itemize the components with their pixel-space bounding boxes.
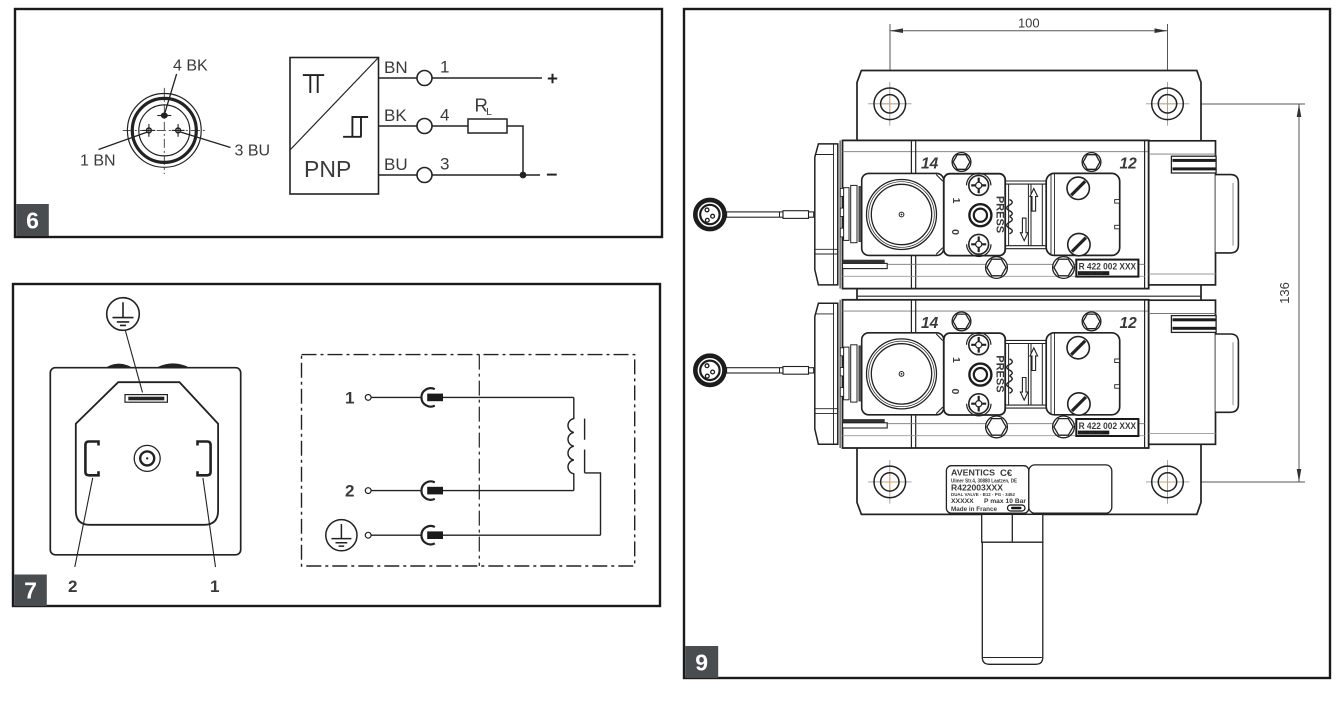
svg-text:C€: C€: [1000, 468, 1013, 479]
pin 3 (BU, right): [176, 128, 181, 133]
leader to pin 4: [165, 74, 177, 113]
pin 4 (BK, top): [161, 113, 168, 119]
base plate: [857, 71, 1201, 515]
outlet stem upper: [982, 514, 1043, 542]
svg-text:6: 6: [26, 208, 39, 234]
svg-text:3 BU: 3 BU: [235, 143, 271, 160]
connector inner chamfered body: [76, 382, 218, 525]
hysteresis symbol: [343, 117, 368, 137]
wire BN: [379, 77, 418, 79]
svg-text:Made in France: Made in France: [951, 506, 997, 513]
svg-text:2: 2: [68, 577, 77, 596]
plus terminal: [548, 74, 557, 83]
dimension 136: extension lines: [1176, 103, 1305, 105]
top slot: [125, 395, 167, 403]
contact symbol row 2: [421, 481, 434, 499]
connector outer circle: [127, 93, 201, 167]
terminal 3: [417, 168, 432, 183]
wire to -: [432, 174, 540, 176]
svg-text:BN: BN: [384, 58, 408, 77]
connector thick ring: [132, 98, 196, 162]
junction dot: [520, 172, 527, 179]
top bump left: [108, 364, 131, 367]
svg-text:136: 136: [1277, 282, 1292, 304]
panel 9 frame: [684, 9, 1330, 678]
inductive sensor symbol: [303, 75, 324, 93]
protective earth symbol (top): [107, 298, 140, 331]
coil L1: [568, 397, 574, 490]
wire BU: [379, 174, 418, 176]
op-amp/sensor block PNP: [290, 58, 379, 195]
panel 7 label box: [14, 575, 47, 607]
svg-text:1 BN: 1 BN: [80, 153, 116, 170]
mounting hole bottom-left: [868, 460, 912, 504]
svg-text:DUAL VALVE - B12 - PG - 3452: DUAL VALVE - B12 - PG - 3452: [951, 492, 1015, 497]
outlet stem lower (silencer): [982, 542, 1043, 664]
mounting hole top-right: [1146, 82, 1190, 126]
svg-text:1: 1: [210, 577, 219, 596]
terminal 1: [417, 71, 432, 86]
panel 6 label box: [16, 204, 49, 236]
PNP block diagonal: [290, 58, 379, 151]
svg-text:3: 3: [440, 155, 449, 174]
svg-text:100: 100: [1018, 16, 1040, 31]
valve unit 2: [815, 300, 1239, 448]
leader to pin 3: [181, 132, 231, 148]
contact 2 (left bracket): [85, 442, 98, 476]
contact 1 (right bracket): [198, 442, 211, 476]
minus terminal: [547, 174, 557, 176]
nameplate right card: [1029, 465, 1112, 513]
schematic dash-dot border: [302, 355, 635, 566]
svg-text:P max 10 Bar: P max 10 Bar: [984, 498, 1026, 505]
panel 7 frame: [13, 284, 660, 606]
leader from earth symbol to slot: [125, 330, 142, 393]
connector inner circle: [139, 105, 190, 156]
center pin: [134, 445, 160, 471]
resistor RL: [468, 119, 507, 133]
leader to label 1: [203, 478, 216, 567]
terminal 4: [417, 119, 432, 134]
svg-text:9: 9: [695, 650, 708, 676]
connector centerline vertical: [163, 88, 165, 174]
top bump right: [159, 364, 188, 367]
svg-text:BU: BU: [384, 155, 408, 174]
pin 1 (BN, left): [147, 128, 152, 133]
svg-text:XXXXX: XXXXX: [951, 498, 974, 505]
panel 6 frame: [15, 9, 662, 237]
wire coil to ground row: [585, 473, 601, 535]
dimension 136: dimension line with arrows: [1298, 104, 1300, 482]
svg-text:4: 4: [440, 106, 449, 125]
connector housing outer square: [50, 368, 240, 555]
valve unit 1: [815, 140, 1239, 288]
dimension 100: dimension line with arrows: [890, 30, 1168, 32]
manual pilot knob unit 2: [695, 356, 813, 385]
svg-text:L: L: [486, 107, 492, 118]
ground row: [326, 520, 357, 551]
mounting hole bottom-right: [1146, 460, 1190, 504]
manual pilot knob unit 1: [695, 200, 813, 229]
connector centerline horizontal: [123, 129, 207, 131]
contact symbol row 1: [421, 388, 434, 406]
dimension 100: extension lines: [889, 24, 891, 100]
wire to resistor: [432, 125, 468, 127]
svg-text:4 BK: 4 BK: [173, 58, 208, 75]
mounting hole top-left: [868, 82, 912, 126]
schematic mid dash-dot line: [478, 355, 480, 566]
nameplate left card: [946, 466, 1028, 514]
leader to pin 1: [99, 132, 148, 150]
svg-text:PNP: PNP: [304, 156, 351, 182]
plate lines between units: [857, 295, 1201, 297]
nameplate text: [951, 468, 1026, 514]
leader to label 2: [75, 478, 93, 567]
svg-text:1: 1: [345, 389, 354, 408]
contact symbol ground row: [421, 526, 434, 544]
wire resistor to junction: [507, 126, 523, 175]
wire BK: [379, 125, 418, 127]
svg-text:AVENTICS: AVENTICS: [951, 468, 995, 478]
svg-text:2: 2: [345, 482, 354, 501]
coil core bar: [584, 419, 586, 473]
wire to +: [432, 77, 542, 79]
svg-text:1: 1: [440, 58, 449, 77]
panel 9 label box: [685, 646, 718, 678]
svg-text:7: 7: [24, 578, 37, 604]
svg-text:BK: BK: [384, 106, 407, 125]
